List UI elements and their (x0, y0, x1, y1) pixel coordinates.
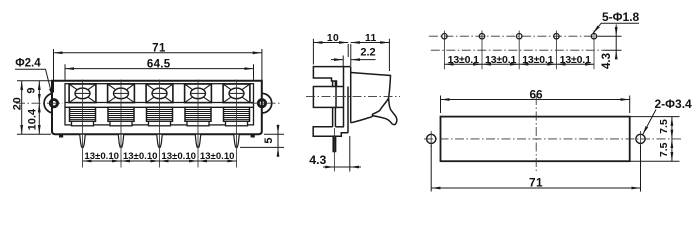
svg-text:9: 9 (26, 87, 38, 93)
svg-text:71: 71 (529, 175, 543, 189)
svg-text:13±0.1: 13±0.1 (522, 54, 553, 66)
svg-text:13±0.10: 13±0.10 (123, 151, 158, 162)
svg-text:13±0.1: 13±0.1 (560, 54, 591, 66)
svg-text:64.5: 64.5 (147, 59, 171, 71)
svg-text:2-Φ3.4: 2-Φ3.4 (655, 97, 693, 111)
svg-text:10: 10 (327, 33, 339, 44)
svg-text:Φ2.4: Φ2.4 (15, 58, 41, 70)
svg-text:7.5: 7.5 (658, 142, 670, 157)
svg-text:13±0.10: 13±0.10 (84, 151, 119, 162)
svg-text:5: 5 (263, 137, 275, 143)
svg-text:10.4: 10.4 (27, 108, 39, 130)
svg-text:66: 66 (529, 88, 543, 102)
svg-text:13±0.10: 13±0.10 (161, 151, 196, 162)
svg-text:13±0.10: 13±0.10 (200, 151, 235, 162)
svg-text:4.3: 4.3 (601, 53, 613, 69)
svg-text:13±0.1: 13±0.1 (485, 54, 516, 66)
svg-text:4.3: 4.3 (309, 153, 326, 167)
svg-text:20: 20 (12, 96, 24, 110)
svg-text:71: 71 (152, 43, 166, 55)
svg-text:5-Φ1.8: 5-Φ1.8 (602, 10, 640, 24)
svg-text:7.5: 7.5 (658, 119, 670, 134)
svg-text:2.2: 2.2 (360, 46, 375, 58)
svg-text:11: 11 (365, 33, 377, 44)
svg-text:13±0.1: 13±0.1 (448, 54, 479, 66)
